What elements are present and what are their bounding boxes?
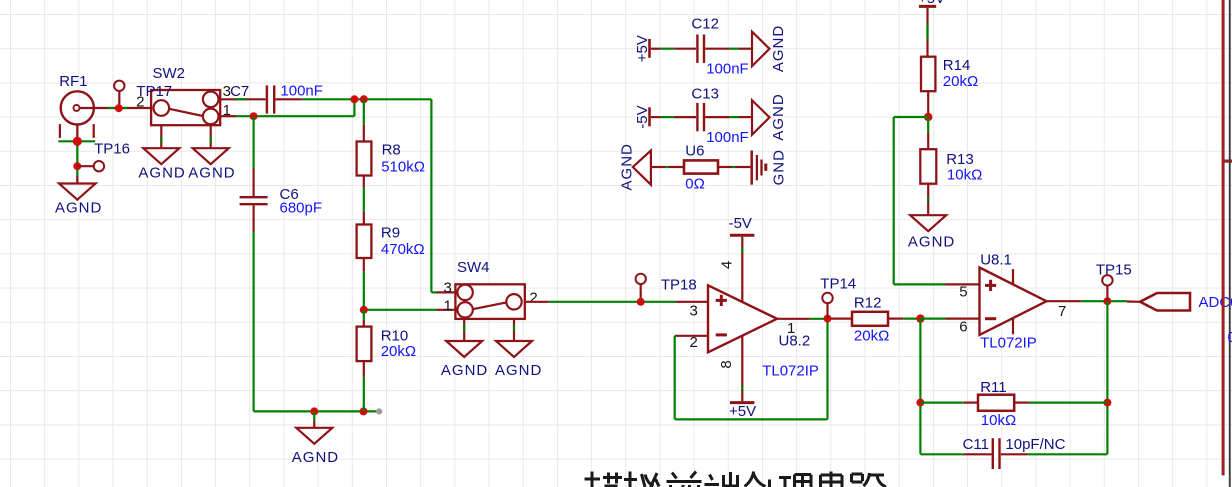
wire junction down to R11 row bbox=[919, 319, 921, 455]
junction B bbox=[360, 95, 368, 103]
svg-text:2: 2 bbox=[529, 290, 537, 307]
resistor U6 0ohm bbox=[651, 142, 751, 192]
ground AGND under R13 bbox=[908, 215, 955, 250]
power +5V below U8.2 bbox=[729, 403, 756, 420]
resistor R10 20k bbox=[357, 310, 417, 412]
svg-text:R12: R12 bbox=[854, 295, 882, 312]
wire RF1 shield net bbox=[58, 141, 95, 183]
wire U8.1 output to port bbox=[1081, 300, 1140, 303]
svg-text:AGND: AGND bbox=[770, 25, 787, 72]
window edge line bbox=[1229, 0, 1231, 487]
svg-text:0: 0 bbox=[1228, 329, 1232, 346]
svg-text:SW2: SW2 bbox=[153, 65, 186, 82]
svg-text:470kΩ: 470kΩ bbox=[381, 241, 425, 258]
op-amp U8.2 bbox=[676, 237, 819, 401]
junction TP15 bbox=[1103, 297, 1111, 305]
junction R9 R10 bbox=[360, 306, 368, 314]
capacitor C11 10pF/NC bbox=[920, 436, 1107, 469]
svg-text:7: 7 bbox=[1058, 303, 1066, 320]
resistor R9 470k bbox=[357, 225, 425, 259]
ground AGND left of U6 bbox=[619, 143, 651, 190]
switch SW4 bbox=[443, 259, 537, 319]
svg-text:C12: C12 bbox=[691, 16, 719, 33]
svg-text:510kΩ: 510kΩ bbox=[381, 158, 425, 175]
svg-text:1: 1 bbox=[443, 297, 451, 314]
wire junction to SW4 pin 1 bbox=[364, 309, 456, 311]
junction R11 left bbox=[916, 399, 924, 407]
switch SW2 bbox=[136, 65, 231, 125]
ground AGND under RF1 bbox=[55, 184, 102, 217]
svg-text:R9: R9 bbox=[381, 225, 400, 242]
wire RF1 to SW2 pin 2 bbox=[80, 107, 152, 109]
wire TP15 down to R11 right bbox=[1106, 301, 1108, 454]
feedback wire U8.2 pin2 to output bbox=[675, 319, 828, 420]
power +5V for C12 bbox=[634, 35, 696, 62]
svg-text:AGND: AGND bbox=[55, 200, 102, 217]
svg-text:+5V: +5V bbox=[729, 403, 756, 420]
resistor R14 20k bbox=[921, 57, 978, 117]
sheet border line right bbox=[1222, 0, 1225, 475]
junction C6 top bbox=[250, 112, 258, 120]
svg-text:AGND: AGND bbox=[495, 362, 542, 379]
junction TP17 on wire bbox=[115, 104, 123, 112]
power -5V for C13 bbox=[634, 105, 696, 128]
title text (top of Chinese caption, clipped) bbox=[585, 472, 887, 487]
SW4 ground pins bbox=[464, 319, 514, 341]
svg-text:SW4: SW4 bbox=[457, 259, 490, 276]
svg-text:6: 6 bbox=[959, 319, 967, 336]
wire U8.2 output bbox=[810, 318, 831, 320]
svg-text:2: 2 bbox=[689, 334, 697, 351]
wire R9 to junction bbox=[363, 258, 365, 310]
test point TP16 bbox=[77, 140, 130, 171]
test point TP15 bbox=[1096, 261, 1132, 301]
junction bottom AGND bbox=[310, 407, 318, 415]
svg-text:TP15: TP15 bbox=[1096, 261, 1132, 278]
svg-text:TP16: TP16 bbox=[94, 140, 130, 157]
sheet border tick bbox=[1223, 160, 1232, 163]
junction R12 right bbox=[916, 314, 924, 322]
ground AGND bottom bbox=[292, 428, 339, 466]
resistor R11 10k bbox=[920, 379, 1107, 429]
svg-text:20kΩ: 20kΩ bbox=[381, 343, 416, 360]
svg-text:GND: GND bbox=[771, 149, 788, 185]
capacitor C6 680pF bbox=[240, 186, 322, 217]
svg-text:R11: R11 bbox=[980, 379, 1006, 396]
op-amp U8.1 bbox=[946, 252, 1081, 352]
wire R8 to R9 bbox=[363, 176, 365, 225]
svg-text:20kΩ: 20kΩ bbox=[943, 73, 978, 90]
no-connect end dot bbox=[376, 408, 382, 414]
wire SW4 pin 2 to U8.2 pin 3 bbox=[525, 301, 676, 303]
svg-text:TL072IP: TL072IP bbox=[762, 363, 819, 380]
test point TP14 bbox=[820, 275, 856, 318]
svg-text:10kΩ: 10kΩ bbox=[981, 412, 1016, 429]
ground AGND under SW4 right bbox=[495, 341, 542, 379]
svg-text:AGND: AGND bbox=[441, 362, 488, 379]
junction TP14 bbox=[824, 315, 832, 323]
svg-text:680pF: 680pF bbox=[280, 199, 323, 216]
resistor R13 10k bbox=[920, 117, 982, 215]
ground AGND under SW2 left bbox=[138, 148, 185, 181]
wire SW2 pin 3 to C7 bbox=[220, 98, 266, 100]
wire feedback to U8.1 pin 5 bbox=[894, 117, 946, 284]
ground GND right of U6 bbox=[752, 149, 788, 185]
svg-text:U8.1: U8.1 bbox=[980, 252, 1012, 269]
svg-text:R10: R10 bbox=[381, 328, 409, 345]
wire C7 to top junctions bbox=[302, 98, 432, 100]
svg-text:ADC0: ADC0 bbox=[1199, 294, 1232, 311]
capacitor C13 100nF bbox=[691, 85, 752, 146]
svg-text:AGND: AGND bbox=[908, 234, 955, 251]
svg-text:U6: U6 bbox=[685, 142, 704, 159]
junction TP18 bbox=[637, 298, 645, 306]
svg-text:TL072IP: TL072IP bbox=[980, 335, 1037, 352]
svg-text:100nF: 100nF bbox=[706, 61, 749, 78]
svg-text:RF1: RF1 bbox=[59, 73, 87, 90]
svg-text:TP17: TP17 bbox=[136, 83, 172, 100]
power -5V above U8.2 bbox=[729, 215, 755, 235]
wire down to SW4 pin 3 bbox=[431, 99, 455, 292]
junction R10 bottom bbox=[360, 407, 368, 415]
resistor R12 20k bbox=[831, 295, 920, 345]
svg-text:C13: C13 bbox=[691, 85, 719, 102]
junction R14 R13 bbox=[924, 113, 932, 121]
svg-text:TP14: TP14 bbox=[820, 275, 856, 292]
svg-text:C11: C11 bbox=[963, 436, 989, 453]
ground AGND right of C13 bbox=[752, 93, 787, 140]
wire SW2 pin 1 row bbox=[220, 115, 354, 117]
svg-text:20kΩ: 20kΩ bbox=[854, 328, 889, 345]
svg-text:0Ω: 0Ω bbox=[685, 175, 705, 192]
wire down to C6 bbox=[253, 116, 255, 196]
svg-text:8: 8 bbox=[718, 360, 735, 368]
svg-text:AGND: AGND bbox=[138, 164, 185, 181]
svg-text:R14: R14 bbox=[943, 57, 971, 74]
wire top junction down to pin1 row bbox=[353, 99, 355, 116]
svg-text:AGND: AGND bbox=[188, 164, 235, 181]
svg-text:10kΩ: 10kΩ bbox=[947, 167, 982, 184]
svg-text:100nF: 100nF bbox=[706, 129, 749, 146]
svg-text:R13: R13 bbox=[946, 151, 974, 168]
svg-text:U8.2: U8.2 bbox=[779, 333, 811, 350]
power +5V top of R14 bbox=[918, 0, 945, 57]
svg-text:AGND: AGND bbox=[292, 449, 339, 466]
junction at TP16 bbox=[73, 162, 81, 170]
svg-text:5: 5 bbox=[959, 284, 967, 301]
connector RF1 bbox=[59, 73, 94, 141]
capacitor C7 100nF bbox=[230, 83, 323, 114]
svg-text:C7: C7 bbox=[230, 83, 249, 100]
wire to bottom AGND bbox=[313, 411, 315, 427]
test point TP18 bbox=[636, 274, 697, 302]
svg-text:3: 3 bbox=[443, 280, 451, 297]
port ADC bbox=[1140, 293, 1232, 311]
svg-text:3: 3 bbox=[689, 302, 697, 319]
svg-text:100nF: 100nF bbox=[280, 83, 323, 100]
test point TP17 bbox=[114, 81, 172, 108]
junction A bbox=[350, 95, 358, 103]
svg-text:R8: R8 bbox=[382, 141, 401, 158]
ground AGND under SW2 right bbox=[188, 148, 235, 181]
ground AGND under SW4 left bbox=[441, 341, 488, 379]
svg-text:TP18: TP18 bbox=[661, 277, 697, 294]
ground AGND right of C12 bbox=[752, 25, 787, 72]
svg-text:AGND: AGND bbox=[770, 93, 787, 140]
wire junction to U8.1 pin 6 bbox=[920, 318, 979, 320]
svg-text:10pF/NC: 10pF/NC bbox=[1005, 436, 1065, 453]
capacitor C12 100nF bbox=[691, 16, 752, 78]
svg-text:4: 4 bbox=[719, 261, 736, 269]
svg-text:-5V: -5V bbox=[729, 215, 752, 232]
junction R11 right bbox=[1103, 399, 1111, 407]
SW2 ground pins bbox=[161, 125, 210, 148]
junction below RF1 bbox=[73, 137, 82, 146]
resistor R8 510k bbox=[357, 99, 425, 175]
wire C6 down and bottom rail bbox=[254, 205, 379, 411]
